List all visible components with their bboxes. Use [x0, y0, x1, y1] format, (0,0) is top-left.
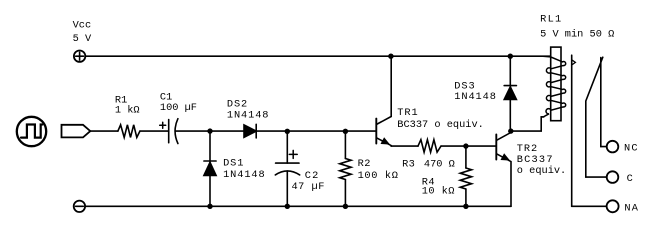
svg-text:5 V min 50 Ω: 5 V min 50 Ω: [540, 29, 614, 41]
svg-text:o equiv.: o equiv.: [517, 165, 566, 177]
svg-text:NC: NC: [624, 143, 639, 155]
node B junction dot (C2 top): [285, 129, 290, 134]
wire bottom rail ground: [85, 205, 511, 207]
node R4 bottom junction dot: [463, 204, 468, 209]
svg-text:1N4148: 1N4148: [454, 91, 496, 103]
node A junction dot (DS1 top): [207, 128, 212, 133]
wire TR2 collector to relay coil: [511, 117, 544, 131]
relay RL1 core: [551, 47, 561, 121]
node TR2 collector junction dot (node D): [508, 128, 513, 133]
wire C1 to DS2 anode (node A): [175, 130, 244, 132]
svg-text:5 V: 5 V: [73, 33, 92, 45]
input terminal connector: [62, 125, 91, 138]
wire R1 to C1: [140, 130, 169, 132]
node DS1 bottom junction dot: [207, 204, 212, 209]
diode DS1: [204, 131, 216, 206]
wire DS2 cathode to TR1 base (node B): [256, 130, 375, 132]
capacitor C1: [160, 119, 178, 144]
svg-text:DS1: DS1: [223, 157, 244, 169]
svg-text:TR2: TR2: [517, 143, 538, 155]
relay RL1 coil winding: [541, 56, 566, 117]
resistor R4: [460, 146, 471, 206]
wire TR1 emitter to R3: [391, 145, 418, 147]
svg-text:NA: NA: [624, 202, 639, 214]
wire NC contact line: [600, 58, 602, 147]
terminal + (Vcc): [74, 51, 85, 62]
svg-text:C: C: [627, 173, 633, 185]
node R2 bottom junction dot: [343, 204, 348, 209]
resistor R1: [118, 125, 140, 138]
relay armature pointer (NA line): [572, 55, 576, 206]
svg-text:BC337 o equiv.: BC337 o equiv.: [397, 119, 484, 131]
svg-text:TR1: TR1: [397, 107, 418, 119]
node R2 top junction dot: [343, 129, 348, 134]
wire top rail Vcc: [85, 55, 550, 57]
wire R3 to TR2 base (node C): [441, 145, 496, 147]
contact C: [586, 171, 619, 183]
contact NC: [601, 141, 619, 153]
svg-text:Vcc: Vcc: [73, 20, 92, 32]
node C2 bottom junction dot: [285, 204, 290, 209]
svg-text:RL1: RL1: [540, 14, 562, 26]
svg-text:1 kΩ: 1 kΩ: [115, 104, 140, 116]
svg-text:1N4148: 1N4148: [227, 110, 269, 122]
wire input to R1: [90, 130, 118, 132]
resistor R3: [418, 140, 441, 153]
svg-text:C2: C2: [305, 170, 320, 182]
node DS3 top junction dot: [508, 54, 513, 59]
node C junction dot (R4 top): [463, 143, 468, 148]
transistor TR2: [496, 131, 511, 206]
svg-text:100 kΩ: 100 kΩ: [358, 170, 399, 182]
svg-text:47 µF: 47 µF: [292, 181, 325, 193]
svg-text:100 µF: 100 µF: [160, 102, 197, 114]
svg-text:1N4148: 1N4148: [223, 169, 265, 181]
relay switch blade (C to NC): [586, 57, 603, 177]
transistor TR1: [376, 56, 391, 146]
diode DS3: [504, 56, 516, 131]
svg-text:R3: R3: [402, 158, 415, 170]
svg-text:10 kΩ: 10 kΩ: [422, 186, 455, 198]
svg-text:R2: R2: [358, 158, 371, 170]
capacitor C2: [275, 131, 299, 206]
contact NA: [572, 200, 619, 212]
diode DS2: [244, 124, 256, 138]
resistor R2: [340, 131, 351, 206]
svg-text:470 Ω: 470 Ω: [424, 158, 455, 170]
terminal - (ground): [74, 201, 85, 212]
square wave source symbol: [17, 117, 46, 146]
node TR1 collector junction dot: [388, 54, 393, 59]
